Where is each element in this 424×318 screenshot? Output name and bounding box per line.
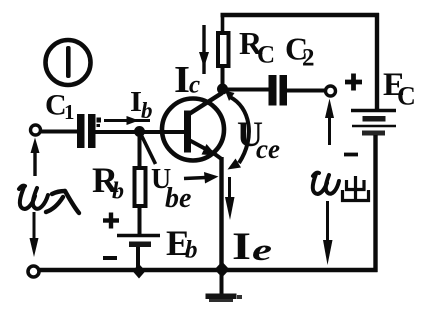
- wire: top rail: [221, 13, 380, 18]
- transistor Q1: body circle: [162, 99, 224, 161]
- current arrow Ic: [199, 25, 209, 74]
- input terminal (bottom left): [28, 266, 39, 277]
- junction diamond emitter / bottom rail: [215, 262, 230, 278]
- wire: RC top lead: [221, 13, 225, 33]
- current arrow Ie: [225, 177, 235, 220]
- voltage arrow u_out lower (points down to bottom rail): [323, 201, 333, 265]
- signal source circle (circled 1): [46, 40, 91, 85]
- input terminal (top left): [31, 125, 41, 135]
- label C2: [285, 31, 315, 72]
- voltage arrow u_out upper (points up at output terminal): [325, 99, 334, 146]
- label u_out (script u + CJK exit glyph): [313, 173, 339, 194]
- capacitor C1: [77, 114, 101, 148]
- wire: Eb to bottom rail: [136, 247, 140, 272]
- voltage arc Uce with arrowheads: [225, 91, 249, 170]
- capacitor C2: [269, 75, 288, 106]
- label Ie: [232, 225, 272, 268]
- wire: C1 to base node and transistor base: [95, 130, 185, 134]
- label Eb: [166, 223, 198, 264]
- label Ic: [174, 59, 200, 101]
- svg-text:e: e: [252, 232, 272, 267]
- battery EC: [351, 111, 396, 136]
- svg-text:b: b: [112, 179, 124, 205]
- voltage arrow u_in upper (points up at terminal): [31, 138, 40, 177]
- svg-text:b: b: [141, 98, 153, 123]
- voltage arrow u_in lower (points down): [30, 212, 39, 257]
- wire: input terminal to C1: [41, 130, 78, 134]
- svg-text:c: c: [189, 72, 200, 99]
- transistor Q1: collector stroke: [189, 93, 222, 114]
- resistor Rb: [135, 168, 146, 206]
- ground symbol: [206, 294, 243, 303]
- label Ube: [151, 164, 191, 214]
- svg-text:I: I: [232, 225, 251, 268]
- battery Eb: [117, 236, 160, 248]
- node: collector junction dot: [217, 84, 228, 95]
- wire: emitter down to bottom rail: [219, 157, 223, 272]
- label RC: [239, 25, 275, 69]
- wire: right rail bottom (EC to bottom rail): [373, 135, 377, 272]
- wire: bottom rail: [39, 268, 378, 273]
- voltage leader Ube (diagonal from base node): [142, 136, 156, 165]
- label Ib: [130, 86, 153, 123]
- label Rb: [92, 160, 124, 205]
- svg-text:C: C: [257, 42, 275, 69]
- svg-text:ce: ce: [256, 134, 280, 164]
- svg-text:1: 1: [64, 100, 75, 124]
- voltage arrow Ube (horizontal, points at emitter wire): [184, 172, 219, 184]
- output terminal: [326, 86, 336, 96]
- node: base junction dot: [134, 126, 145, 137]
- label EC: [383, 67, 416, 111]
- wire: collector node to C2: [226, 88, 269, 92]
- transistor Q1: emitter stroke with arrow: [189, 140, 222, 159]
- svg-text:be: be: [165, 183, 191, 214]
- minus sign EC: [344, 153, 358, 157]
- svg-text:b: b: [185, 237, 198, 264]
- wire: Rb to battery Eb: [138, 206, 142, 236]
- current arrow Ib: [104, 116, 150, 125]
- svg-text:2: 2: [302, 45, 315, 72]
- wire: base node down to Rb: [138, 131, 142, 168]
- svg-text:C: C: [397, 82, 416, 111]
- wire: collector node up to RC: [221, 66, 225, 93]
- plus sign (output / EC): [345, 74, 362, 91]
- ground stub: [220, 270, 224, 294]
- svg-text:I: I: [174, 59, 190, 101]
- junction diamond Eb / bottom rail: [133, 264, 146, 279]
- label u_in (script u + CJK enter glyph): [19, 186, 48, 209]
- label Uce: [237, 114, 280, 164]
- wire: right rail top (to EC battery): [375, 13, 379, 110]
- resistor RC: [218, 33, 229, 66]
- transistor Q1: base bar: [184, 111, 191, 153]
- plus sign Eb: [103, 213, 119, 229]
- minus sign Eb: [103, 256, 117, 260]
- label C1: [45, 89, 75, 125]
- wire: C2 to output terminal: [287, 89, 326, 93]
